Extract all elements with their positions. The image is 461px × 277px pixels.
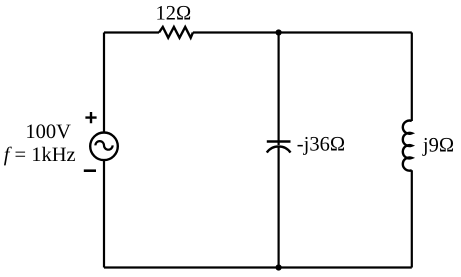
wire left vertical lower (source - to bottom) xyxy=(103,160,105,267)
value label -j36Ω xyxy=(297,133,345,155)
capacitor C (-j36 ohm) xyxy=(267,142,291,153)
wire top-middle horizontal (resistor to node A) xyxy=(193,31,279,33)
source value label f = 1kHz xyxy=(4,144,76,166)
wire right vertical lower (inductor to bottom) xyxy=(411,170,413,267)
wire left vertical upper (top to source +) xyxy=(103,33,105,132)
wire middle vertical lower (capacitor to node B) xyxy=(278,147,280,268)
value label 12Ω xyxy=(156,2,192,24)
inductor L (j9 ohm) xyxy=(403,121,412,171)
node B (bottom junction) xyxy=(276,264,282,270)
svg-text:100V: 100V xyxy=(25,121,71,143)
wire bottom-right horizontal xyxy=(279,266,412,268)
svg-text:-j36Ω: -j36Ω xyxy=(297,133,345,155)
wire middle vertical upper (node A to capacitor) xyxy=(278,33,280,146)
ac voltage source V1 xyxy=(90,133,118,161)
resistor R (12 ohm) xyxy=(159,27,193,38)
wire right vertical upper (top to inductor) xyxy=(411,33,413,122)
node A (top junction) xyxy=(276,29,282,35)
source value label 100V xyxy=(25,121,71,143)
value label j9Ω xyxy=(422,135,454,157)
svg-text:f = 1kHz: f = 1kHz xyxy=(4,144,76,166)
wire top-left horizontal (source top to resistor) xyxy=(104,31,159,33)
svg-text:12Ω: 12Ω xyxy=(156,2,192,24)
- polarity mark xyxy=(84,169,96,172)
wire top-right horizontal (node A to right branch) xyxy=(279,31,412,33)
wire bottom-left horizontal xyxy=(104,266,279,268)
svg-text:j9Ω: j9Ω xyxy=(422,135,454,157)
+ polarity mark xyxy=(85,112,96,123)
